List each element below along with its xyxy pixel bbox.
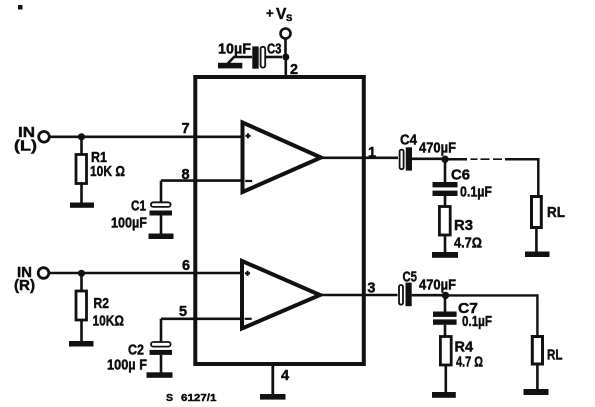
wire IN R to pin 6 / op-amp B + (49, 272, 240, 275)
wire pin 5 / op-amp B minus (161, 317, 240, 320)
wire junction to R2 (80, 273, 83, 291)
capacitor C7 (433, 312, 457, 325)
svg-text:0.1µF: 0.1µF (462, 313, 492, 330)
terminal IN L (39, 132, 50, 143)
wire node to RL (lower) (446, 295, 538, 336)
svg-text:100µ F: 100µ F (107, 357, 147, 374)
ground (C2) (147, 372, 173, 378)
svg-text:10µF: 10µF (218, 41, 251, 58)
svg-text:8: 8 (182, 167, 190, 183)
ground (R3) (432, 252, 458, 258)
ground (R1) (70, 203, 94, 208)
svg-text:0.1µF: 0.1µF (460, 184, 492, 201)
svg-text:10K Ω: 10K Ω (90, 163, 125, 180)
wire op-amp B output to pin 3 and C5 (320, 294, 398, 297)
svg-text:+: + (266, 6, 274, 21)
op-amp B plus mark (245, 271, 250, 276)
op-amp A (upper) (243, 123, 322, 193)
svg-text:C1: C1 (131, 198, 146, 215)
svg-text:R3: R3 (454, 217, 473, 234)
wire RL to ground (lower) (536, 364, 539, 390)
node input L junction (78, 133, 85, 140)
resistor RL (lower) (532, 337, 542, 365)
wire +Vs to node (284, 39, 287, 58)
wire C7 to R4 (444, 325, 447, 337)
wire pin 8 / op-amp A minus (161, 179, 241, 182)
node supply junction (282, 54, 289, 61)
svg-text:S: S (286, 13, 292, 24)
IC package U1 (195, 77, 363, 364)
wire IN L to pin 7 / op-amp A + (50, 136, 241, 139)
svg-text:RL: RL (547, 347, 563, 364)
svg-text:RL: RL (547, 204, 565, 221)
wire node to RL (partly faded in scan) (445, 158, 467, 161)
capacitor C1 (150, 202, 173, 215)
wire C3 to ground (228, 57, 252, 64)
op-amp A plus mark (245, 133, 250, 138)
op-amp B (lower) (242, 261, 320, 329)
wire R2 to ground (80, 320, 83, 342)
ground (10uF cap) (218, 63, 242, 69)
wire op-amp A output to pin 1 and C4 (321, 157, 398, 160)
supply label +Vs (266, 6, 292, 25)
terminal +Vs (281, 29, 291, 39)
wire R4 to ground (444, 365, 447, 393)
svg-text:3: 3 (367, 281, 375, 297)
wire C2 to ground (160, 355, 163, 373)
wire pin5 down to C2 (160, 319, 163, 342)
svg-text:C6: C6 (451, 167, 470, 184)
svg-text:C3: C3 (267, 41, 282, 58)
resistor R1 (76, 155, 87, 184)
drawing number S 6127/1 (166, 392, 217, 404)
node input R junction (78, 270, 85, 277)
svg-text:6127/1: 6127/1 (181, 392, 217, 404)
capacitor C5 (399, 283, 412, 307)
ground (C1) (149, 234, 174, 240)
wire node down to C6 (444, 159, 447, 182)
wire C1 to ground (160, 216, 163, 235)
svg-text:1: 1 (368, 145, 376, 161)
wire node to C3 (266, 56, 282, 59)
capacitor C6 (433, 182, 458, 196)
capacitor C4 (400, 147, 412, 170)
svg-text:470µF: 470µF (419, 140, 456, 157)
svg-text:470µF: 470µF (419, 277, 456, 294)
svg-text:5: 5 (179, 304, 187, 320)
input R label (14, 264, 35, 294)
wire C6 to R3 (444, 196, 447, 207)
svg-text:10KΩ: 10KΩ (93, 313, 125, 330)
svg-text:S: S (166, 392, 173, 404)
wire RL to ground (upper) (535, 228, 538, 253)
node output L junction (441, 156, 448, 163)
node output R junction (442, 292, 449, 299)
wire node down to C7 (444, 295, 447, 311)
svg-text:4.7Ω: 4.7Ω (454, 235, 482, 252)
svg-text:C4: C4 (400, 132, 418, 149)
ground (RL upper) (525, 252, 550, 258)
svg-text:4: 4 (281, 368, 289, 384)
wire C4 to node (412, 158, 445, 161)
svg-text:7: 7 (182, 121, 190, 137)
wire node to pin 2 (284, 57, 287, 76)
stray dot mark top-left (18, 5, 23, 10)
ground (pin 4) (260, 394, 286, 400)
ground (R4) (432, 392, 456, 398)
terminal IN R (38, 268, 49, 279)
ground (R2) (69, 341, 94, 347)
resistor R3 (439, 207, 450, 236)
svg-text:R2: R2 (94, 295, 110, 312)
op-amp B minus mark (245, 318, 252, 320)
svg-text:(R): (R) (14, 277, 35, 294)
svg-text:6: 6 (182, 258, 190, 274)
capacitor C2 (150, 342, 173, 355)
svg-text:(L): (L) (14, 138, 37, 155)
wire R1 to ground (80, 184, 83, 204)
wire C5 to node (412, 294, 446, 297)
svg-text:C5: C5 (403, 269, 418, 286)
wire junction to R1 (80, 137, 83, 155)
wire pin8 down to C1 (160, 181, 163, 203)
op-amp A minus mark (245, 180, 252, 182)
svg-text:4.7 Ω: 4.7 Ω (456, 354, 483, 371)
capacitor C3 (252, 46, 265, 68)
wire pin 4 to ground (271, 364, 274, 395)
input L label (14, 124, 37, 155)
svg-text:100µF: 100µF (111, 215, 147, 232)
resistor R2 (76, 291, 87, 320)
wire R3 to ground (444, 235, 447, 253)
ground (RL lower) (524, 389, 549, 395)
resistor RL (upper) (532, 197, 542, 228)
resistor R4 (440, 337, 451, 366)
